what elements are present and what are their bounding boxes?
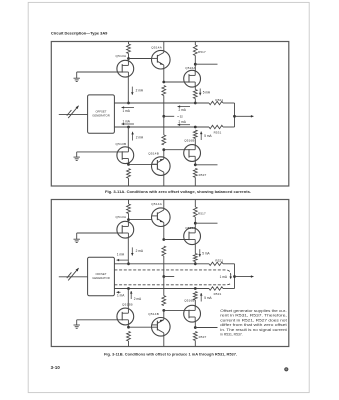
svg-text:Offset generator supplies the: Offset generator supplies the cur-	[220, 309, 286, 313]
svg-text:1 mA: 1 mA	[123, 109, 131, 113]
svg-text:R537: R537	[199, 173, 207, 177]
svg-text:Q513A: Q513A	[116, 54, 127, 58]
svg-text:Q514A: Q514A	[151, 46, 162, 50]
svg-text:R521: R521	[215, 98, 223, 102]
svg-text:R521: R521	[215, 259, 223, 263]
svg-text:GENERATOR: GENERATOR	[92, 114, 109, 118]
svg-text:Q513B: Q513B	[116, 142, 127, 146]
svg-text:3-10: 3-10	[51, 365, 61, 370]
svg-text:Q514B: Q514B	[148, 151, 159, 155]
svg-text:differ from that with zero: differ from that with zero offset	[220, 323, 287, 327]
svg-text:2 mA: 2 mA	[136, 249, 144, 253]
svg-text:5 mA: 5 mA	[202, 252, 210, 256]
svg-text:R517: R517	[198, 212, 206, 216]
svg-text:2 mA: 2 mA	[136, 88, 144, 92]
svg-text:Q514A: Q514A	[151, 202, 162, 206]
svg-text:Q513A: Q513A	[116, 215, 127, 219]
svg-text:Fig. 3-11B. Conditions with of: Fig. 3-11B. Conditions with offset to pr…	[104, 353, 237, 357]
svg-text:Q516A: Q516A	[185, 66, 195, 70]
svg-text:R531: R531	[214, 292, 222, 296]
svg-text:1 mA: 1 mA	[220, 275, 228, 279]
svg-text:R517: R517	[198, 50, 206, 54]
svg-text:= 52: = 52	[177, 115, 183, 119]
svg-text:Q514B: Q514B	[148, 312, 159, 316]
svg-text:in R531, R537.: in R531, R537.	[220, 333, 242, 337]
svg-text:2 mA: 2 mA	[179, 120, 187, 124]
svg-text:R531: R531	[214, 130, 222, 134]
svg-text:5 mA: 5 mA	[204, 134, 212, 138]
svg-text:rent in R531, R537. There: rent in R531, R537. Therefore,	[220, 314, 287, 318]
svg-text:2 mA: 2 mA	[136, 136, 144, 140]
svg-text:R537: R537	[199, 335, 207, 339]
svg-text:1 mA: 1 mA	[123, 119, 131, 123]
svg-text:5 mA: 5 mA	[203, 91, 211, 95]
svg-text:in. The result is no signal c: in. The result is no signal current	[220, 328, 287, 332]
svg-text:2 mA: 2 mA	[134, 297, 142, 301]
svg-text:Fig. 3-11A. Conditions with ze: Fig. 3-11A. Conditions with zero offset …	[105, 190, 251, 194]
svg-text:5 mA: 5 mA	[204, 296, 212, 300]
svg-text:current in R521, R527 does: current in R521, R527 does not	[220, 318, 287, 322]
svg-text:1 mA: 1 mA	[117, 294, 125, 298]
svg-text:1 mA: 1 mA	[117, 253, 125, 257]
svg-text:Q513B: Q513B	[122, 303, 133, 307]
svg-text:Q516A: Q516A	[185, 226, 195, 230]
svg-text:Circuit Description—Type 3A9: Circuit Description—Type 3A9	[51, 30, 108, 35]
svg-text:Q516B: Q516B	[184, 139, 194, 143]
svg-text:2 mA: 2 mA	[179, 108, 187, 112]
svg-text:Q516B: Q516B	[184, 299, 194, 303]
svg-text:GENERATOR: GENERATOR	[92, 276, 109, 280]
